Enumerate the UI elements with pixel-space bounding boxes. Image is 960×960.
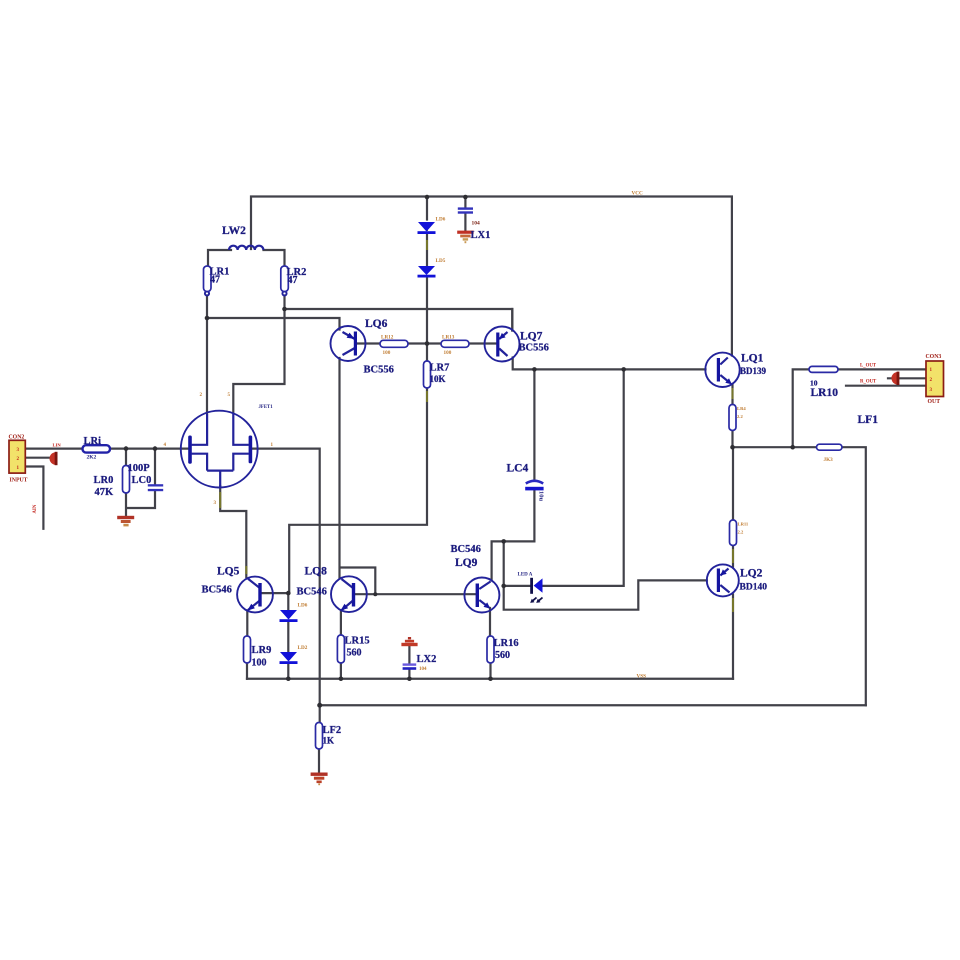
svg-text:47K: 47K: [95, 487, 115, 498]
svg-text:BC556: BC556: [519, 343, 549, 354]
svg-text:LD2: LD2: [298, 645, 308, 651]
svg-text:L_OUT: L_OUT: [860, 364, 877, 369]
svg-text:LF1: LF1: [858, 414, 879, 426]
svg-text:CON3: CON3: [926, 354, 942, 360]
svg-text:INPUT: INPUT: [10, 477, 28, 483]
svg-text:LD6: LD6: [436, 217, 446, 223]
svg-text:3: 3: [214, 501, 217, 506]
svg-text:LR13: LR13: [442, 335, 455, 341]
svg-text:2.2: 2.2: [738, 530, 744, 535]
svg-text:LQ8: LQ8: [305, 566, 328, 578]
svg-text:LD6: LD6: [298, 603, 308, 609]
svg-text:1K: 1K: [323, 736, 335, 746]
svg-text:BD139: BD139: [740, 366, 767, 376]
svg-text:LR12: LR12: [381, 335, 394, 341]
svg-text:LQ5: LQ5: [217, 566, 240, 578]
svg-text:LR7: LR7: [430, 363, 450, 374]
svg-text:560: 560: [495, 650, 510, 661]
svg-text:LC4: LC4: [507, 463, 529, 475]
svg-text:10u: 10u: [538, 491, 545, 502]
svg-text:VSS: VSS: [637, 674, 647, 680]
svg-text:LX1: LX1: [471, 230, 491, 241]
svg-text:BD140: BD140: [740, 583, 768, 593]
svg-text:BC556: BC556: [364, 365, 394, 376]
svg-text:LQ6: LQ6: [365, 318, 388, 330]
svg-text:2: 2: [200, 393, 203, 398]
svg-text:LD5: LD5: [436, 258, 446, 264]
svg-text:BC546: BC546: [202, 585, 232, 596]
svg-text:JFET1: JFET1: [259, 405, 274, 410]
svg-text:JK3: JK3: [824, 457, 834, 463]
svg-text:4: 4: [164, 443, 167, 448]
svg-text:LR4: LR4: [737, 406, 746, 411]
svg-text:47: 47: [288, 275, 298, 286]
svg-text:LQ2: LQ2: [740, 568, 763, 580]
svg-text:100: 100: [383, 350, 391, 356]
svg-text:47: 47: [210, 275, 220, 286]
svg-text:100: 100: [252, 658, 267, 669]
svg-text:100P: 100P: [128, 463, 151, 474]
svg-text:10K: 10K: [430, 374, 446, 384]
svg-text:1: 1: [271, 443, 274, 448]
svg-text:LRi: LRi: [84, 436, 102, 447]
svg-text:LQ7: LQ7: [520, 331, 543, 343]
svg-text:LED A: LED A: [518, 573, 533, 578]
svg-text:100: 100: [444, 350, 452, 356]
svg-text:560: 560: [347, 648, 362, 659]
svg-text:AIN: AIN: [33, 504, 38, 513]
svg-text:VCC: VCC: [632, 191, 643, 197]
svg-text:BC546: BC546: [297, 587, 327, 598]
svg-text:LF2: LF2: [323, 725, 342, 736]
svg-text:10: 10: [810, 379, 818, 388]
svg-text:BC546: BC546: [451, 544, 481, 555]
svg-text:LR0: LR0: [94, 475, 114, 486]
svg-text:LR16: LR16: [494, 638, 519, 649]
svg-text:2.2: 2.2: [737, 414, 743, 419]
svg-text:LR10: LR10: [811, 387, 839, 399]
svg-text:OUT: OUT: [928, 399, 941, 405]
svg-text:LQ1: LQ1: [741, 353, 764, 365]
svg-text:5: 5: [228, 393, 231, 398]
svg-text:104: 104: [472, 221, 481, 227]
svg-text:LR11: LR11: [738, 522, 749, 527]
svg-text:LR9: LR9: [252, 645, 272, 656]
svg-text:LX2: LX2: [417, 654, 437, 665]
svg-text:R_OUT: R_OUT: [860, 380, 877, 385]
svg-text:LC0: LC0: [132, 475, 152, 486]
svg-text:CON2: CON2: [9, 434, 25, 440]
svg-text:LW2: LW2: [222, 225, 246, 237]
svg-text:LR15: LR15: [345, 636, 370, 647]
svg-text:2K2: 2K2: [87, 455, 97, 461]
svg-text:LIN: LIN: [53, 443, 62, 448]
svg-text:104: 104: [419, 667, 427, 672]
svg-text:LQ9: LQ9: [455, 557, 478, 569]
